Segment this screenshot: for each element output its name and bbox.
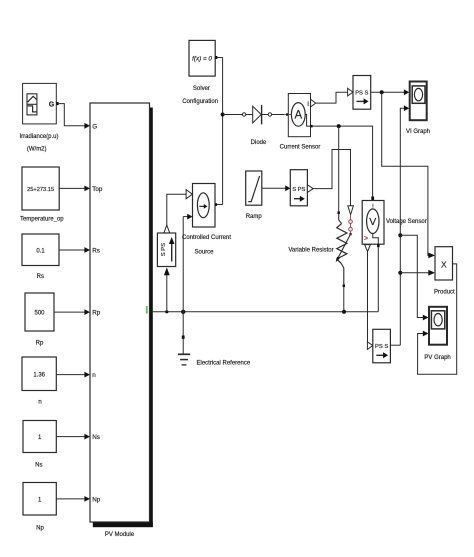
wire Irradiance G to PV [59,104,85,126]
wire Rp to PV [54,311,85,313]
svg-text:Diode: Diode [251,140,267,146]
svg-text:PV Module: PV Module [105,532,135,538]
ground / electrical reference [182,312,184,336]
svg-text:Np: Np [36,525,44,531]
svg-text:PS S: PS S [355,91,368,97]
svg-text:Ns: Ns [35,462,42,468]
svg-text:Electrical Reference: Electrical Reference [197,361,251,367]
svg-text:0.1: 0.1 [36,248,45,254]
svg-text:I: I [307,101,309,108]
svg-text:Controlled Current: Controlled Current [182,235,231,241]
wire voltage sensor PS out to PS-S bottom [367,252,369,342]
wire node D to Product in2 [400,272,428,274]
wire Np to PV [56,498,85,500]
node B junction [380,90,384,94]
Solver Configuration block U2 [189,40,215,76]
VI Graph in2 arrow [404,105,409,111]
wire Ramp to S-PS [262,187,286,189]
constant 0.1 [22,234,59,266]
svg-text:500: 500 [34,310,45,316]
variable resistor R1 [338,211,340,214]
svg-text:Variable Resistor: Variable Resistor [288,248,333,254]
svg-text:Ramp: Ramp [246,214,263,220]
controlled current source U5 [186,190,192,199]
diode D1 [242,113,245,116]
svg-text:X: X [441,260,447,270]
wire node C to PV Graph in1 [400,235,423,317]
wire node E down to variable resistor [338,126,340,211]
svg-text:V: V [369,216,376,228]
wire n to PV [56,374,85,376]
svg-text:G: G [92,123,97,130]
svg-text:Rs: Rs [37,274,44,280]
svg-text:Source: Source [194,250,214,256]
svg-text:n: n [38,399,41,405]
PS-Simulink converter top [348,88,353,96]
svg-text:Current Sensor: Current Sensor [280,144,321,150]
wire rail up to S-PS left input [166,275,168,312]
svg-text:Solver: Solver [193,86,210,92]
svg-text:Top: Top [92,186,103,193]
svg-text:A: A [294,109,302,121]
node F junction [342,310,346,314]
wire voltage sensor minus to output rail [377,247,379,312]
red PS connection [350,215,352,234]
constant 1 (Np) [23,483,56,516]
svg-text:>: > [364,236,368,243]
svg-text:1.36: 1.36 [33,373,45,379]
node G junction (ground) [181,310,185,314]
wire CCS left bottom port down to ground node [183,216,187,218]
wire current sensor PS out to PS-S top [316,92,348,103]
wire sensor bottom to voltage sensor top [313,126,373,196]
variable resistor PS input triangle [348,206,354,215]
wire diode to current sensor [272,114,286,116]
svg-text:Voltage Sensor: Voltage Sensor [386,219,427,225]
wire node B to Product in1 [382,92,429,255]
Irradiance source block [23,83,57,124]
svg-text:25+273.15: 25+273.15 [27,187,54,193]
svg-text:G: G [49,102,55,109]
wire Product out to PV Graph in2 [418,264,457,374]
wire node A to diode [223,114,243,116]
wire Temperature to PV Top [59,187,85,189]
wire S-PS left to CCS PS input [167,194,186,225]
svg-text:Np: Np [92,496,101,503]
svg-text:S PS: S PS [292,187,305,193]
Simulink-PS converter left (rotated) [157,233,175,267]
node E junction [337,124,341,128]
wire node A vertical (solver/diode/CCS) [222,58,224,205]
wire Ns to PV [56,436,85,438]
voltage sensor U4 [371,196,374,200]
wire PS-S to VI Graph in1 [371,91,405,93]
PV Graph scope [429,307,447,345]
wire S-PS to variable resistor PS port [313,150,350,206]
Product block [435,247,453,280]
wire PS-S bottom out to rail [390,344,400,346]
svg-text:S PS: S PS [161,243,167,256]
node D junction [398,271,402,275]
PV Module output port highlight (green) [146,306,148,314]
svg-text:f(x) = 0: f(x) = 0 [192,56,212,63]
wire PS-S bottom up to VI Graph in2 (rail) [400,108,404,345]
node A junction [221,113,225,117]
svg-text:Irradiance(p.u): Irradiance(p.u) [19,134,58,140]
svg-text:n: n [92,372,96,379]
Ramp block [246,171,262,205]
PV Module [90,103,150,522]
node C junction [398,233,402,237]
svg-text:Product: Product [434,289,455,295]
svg-text:Temperature_op: Temperature_op [20,217,64,223]
svg-text:Rp: Rp [36,340,44,346]
wire Rs to PV [59,249,85,251]
current sensor U3 [284,114,292,116]
svg-text:(W/m2): (W/m2) [27,147,47,153]
svg-text:Rs: Rs [92,247,100,254]
PS-Simulink converter bottom [367,342,372,350]
wire solver to node A [217,57,222,59]
PV Module shadow [150,108,153,528]
wire CCS right port to node A [217,204,223,206]
Simulink-PS converter mid [290,170,307,206]
svg-text:Rp: Rp [92,309,101,316]
svg-text:Configuration: Configuration [182,99,218,105]
svg-text:VI Graph: VI Graph [406,129,430,135]
VI Graph scope [410,82,427,121]
constant 500 [25,293,54,331]
output rail from PV module [152,311,379,313]
constant 1 (Ns) [23,421,56,453]
node H junction [165,310,168,313]
constant 25+273.15 [22,167,59,210]
constant 1.36 [22,357,56,391]
svg-text:PV Graph: PV Graph [424,355,450,361]
svg-text:Ns: Ns [92,434,100,441]
svg-text:PS S: PS S [375,344,388,350]
